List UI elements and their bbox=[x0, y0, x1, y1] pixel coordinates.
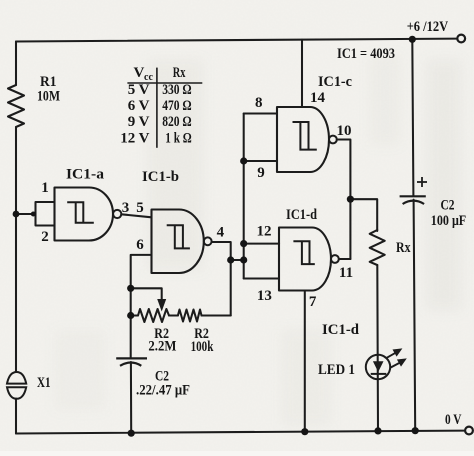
wire timing cap to ground bbox=[130, 362, 132, 433]
wire C2 supply cap lower bbox=[414, 200, 416, 431]
svg-text:1: 1 bbox=[41, 180, 49, 196]
wire left rail upper bbox=[15, 42, 17, 86]
svg-text:IC1 = 4093: IC1 = 4093 bbox=[337, 46, 395, 62]
svg-text:470 Ω: 470 Ω bbox=[162, 98, 192, 114]
hysteresis symbol IC1-d bbox=[293, 241, 314, 264]
table rule horizontal bbox=[127, 82, 202, 84]
svg-text:V: V bbox=[134, 65, 145, 81]
svg-text:Rx: Rx bbox=[173, 65, 186, 81]
svg-text:IC1-d: IC1-d bbox=[322, 322, 360, 338]
wire IC1-c pin9 bbox=[244, 160, 277, 162]
LED 1 bbox=[366, 348, 407, 379]
svg-text:+6 /12V: +6 /12V bbox=[407, 19, 449, 35]
wire R2 pot left lead bbox=[131, 314, 138, 316]
node pin4 tee bbox=[227, 256, 234, 263]
svg-text:IC1-d: IC1-d bbox=[286, 207, 318, 223]
output bubble IC1-d pin11 bbox=[331, 255, 339, 263]
resistor R2 2.2M bbox=[138, 309, 169, 322]
svg-text:14: 14 bbox=[310, 90, 326, 106]
svg-text:11: 11 bbox=[339, 265, 353, 281]
svg-text:9 V: 9 V bbox=[128, 114, 150, 130]
svg-text:.22/.47 μF: .22/.47 μF bbox=[136, 383, 190, 399]
svg-text:6 V: 6 V bbox=[128, 98, 150, 114]
wire top supply rail bbox=[16, 39, 457, 42]
node bracket tee bbox=[240, 256, 247, 263]
wire IC1-b output down bbox=[212, 242, 231, 316]
wire IC1-b pin6 branch bbox=[131, 255, 152, 358]
wire junction link to gate c/d inputs bbox=[231, 259, 244, 261]
svg-text:820 Ω: 820 Ω bbox=[162, 114, 192, 130]
svg-text:IC1-b: IC1-b bbox=[142, 169, 179, 185]
wire input feed to IC1-a bbox=[16, 213, 36, 215]
svg-text:Rx: Rx bbox=[396, 240, 411, 256]
terminal 0V bbox=[465, 427, 473, 435]
svg-text:12 V: 12 V bbox=[120, 131, 149, 147]
svg-text:100k: 100k bbox=[191, 339, 214, 355]
wire IC1-d pin12 bbox=[244, 243, 279, 245]
svg-text:0 V: 0 V bbox=[445, 412, 462, 428]
NAND gate IC1-b bbox=[152, 210, 204, 274]
hysteresis symbol IC1-c bbox=[293, 122, 317, 150]
svg-text:12: 12 bbox=[257, 224, 272, 240]
svg-text:4: 4 bbox=[217, 225, 225, 241]
node LED ground bbox=[374, 427, 381, 434]
node outputs tie bbox=[347, 196, 354, 203]
capacitor C2 timing (.22/.47uF) bbox=[116, 358, 147, 365]
NAND gate IC1-c bbox=[277, 107, 329, 172]
wire IC1-a input bracket bbox=[36, 202, 55, 226]
svg-text:7: 7 bbox=[309, 294, 317, 310]
svg-text:10: 10 bbox=[337, 123, 352, 139]
node wiper junction bbox=[127, 285, 134, 292]
svg-text:330 Ω: 330 Ω bbox=[162, 82, 192, 98]
wire IC1-c output bbox=[337, 140, 351, 260]
node pin7 ground bbox=[301, 428, 308, 435]
plus sign for C2 bbox=[417, 181, 427, 183]
wire output node to Rx bbox=[350, 199, 377, 231]
terminal +6/12V bbox=[457, 35, 465, 43]
op-amp style NAND gate IC1-a bbox=[55, 188, 114, 241]
hysteresis symbol IC1-a bbox=[67, 202, 94, 223]
NAND gate IC1-d bbox=[279, 228, 331, 291]
output bubble IC1-c pin10 bbox=[329, 136, 337, 144]
wire pin7 to ground rail bbox=[304, 291, 306, 432]
node small dot at bracket bbox=[31, 212, 36, 217]
svg-text:6: 6 bbox=[136, 237, 144, 253]
wire Rx to LED bbox=[376, 265, 379, 431]
svg-text:8: 8 bbox=[255, 95, 263, 111]
output bubble IC1-b pin4 bbox=[204, 237, 212, 245]
svg-text:2.2M: 2.2M bbox=[148, 339, 176, 355]
table rule vertical bbox=[156, 68, 158, 148]
wire left rail middle bbox=[15, 127, 17, 372]
hysteresis symbol IC1-b bbox=[167, 225, 190, 248]
svg-text:X1: X1 bbox=[37, 375, 51, 391]
node C2 ground bbox=[412, 427, 419, 434]
resistor Rx bbox=[370, 230, 385, 265]
node timing cap ground bbox=[128, 430, 135, 437]
wire R2 right lead up to pin4 line bbox=[202, 314, 231, 316]
svg-text:10M: 10M bbox=[37, 89, 60, 105]
svg-text:100 μF: 100 μF bbox=[431, 213, 466, 229]
wire R2 middle lead bbox=[169, 314, 178, 316]
wire IC1-c pin8 bbox=[244, 112, 277, 114]
svg-text:5: 5 bbox=[136, 200, 144, 216]
svg-text:5 V: 5 V bbox=[128, 82, 150, 98]
svg-text:13: 13 bbox=[257, 288, 272, 304]
wire left rail lower bbox=[15, 399, 17, 434]
wire C2 supply cap upper bbox=[412, 39, 413, 196]
svg-text:2: 2 bbox=[41, 229, 49, 245]
output bubble IC1-a pin3 bbox=[113, 210, 121, 218]
LED arrow 2 bbox=[390, 363, 400, 368]
svg-text:IC1-a: IC1-a bbox=[66, 167, 105, 183]
svg-text:LED 1: LED 1 bbox=[318, 362, 355, 378]
crystal sensor X1 bbox=[7, 372, 26, 399]
svg-text:IC1-c: IC1-c bbox=[318, 74, 352, 90]
svg-text:C2: C2 bbox=[441, 198, 455, 214]
node top rail C2 bbox=[409, 36, 416, 43]
wire pin14 to rail bbox=[301, 40, 303, 107]
svg-text:9: 9 bbox=[257, 165, 265, 181]
potentiometer wiper arrow R2 bbox=[157, 299, 166, 312]
node pin9 tee bbox=[240, 157, 247, 164]
wire IC1-d pin13 bbox=[244, 277, 279, 279]
node pot left junction bbox=[127, 312, 134, 319]
wire bottom rail bbox=[16, 431, 465, 434]
node pin12 tee bbox=[240, 240, 247, 247]
resistor R1 bbox=[8, 85, 24, 127]
wire input bracket IC1-c IC1-d bbox=[243, 114, 245, 279]
svg-text:3: 3 bbox=[122, 200, 130, 216]
LED arrow 1 bbox=[387, 353, 396, 358]
wire IC1-d output bbox=[339, 258, 351, 260]
resistor R2 100k bbox=[178, 310, 202, 322]
capacitor C2 supply (100uF) bbox=[400, 177, 427, 204]
wire IC1-a output to IC1-b pin5 bbox=[121, 214, 151, 217]
wire pot wiper link bbox=[131, 288, 162, 301]
node input junction on left rail bbox=[13, 211, 20, 218]
svg-text:1 k Ω: 1 k Ω bbox=[165, 131, 191, 147]
